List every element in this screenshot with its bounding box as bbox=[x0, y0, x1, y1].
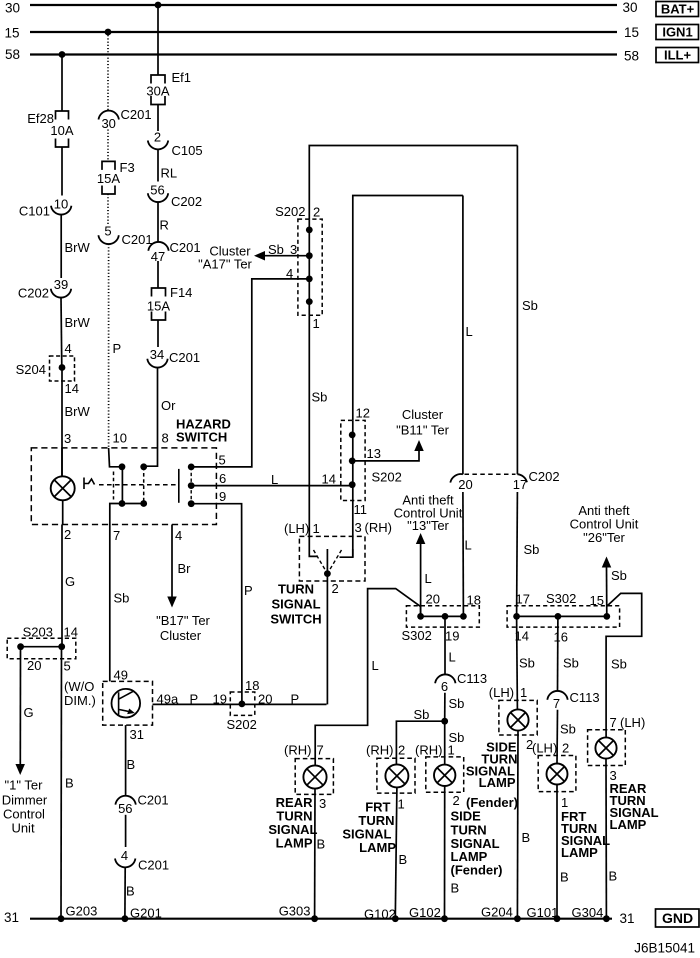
svg-text:G201: G201 bbox=[130, 906, 162, 921]
wire hazard pin4 to B17 cluster (Br) bbox=[171, 525, 173, 600]
svg-text:5: 5 bbox=[104, 224, 111, 239]
svg-text:10: 10 bbox=[113, 431, 127, 446]
ground G102 (FRT RH) bbox=[392, 915, 399, 922]
arrow S202-3 to Cluster A17 Ter (Sb) bbox=[264, 255, 310, 257]
svg-text:(RH): (RH) bbox=[365, 520, 392, 535]
svg-text:39: 39 bbox=[54, 277, 68, 292]
svg-text:2: 2 bbox=[154, 130, 161, 145]
svg-text:16: 16 bbox=[554, 630, 568, 645]
svg-text:L: L bbox=[449, 650, 456, 665]
wire bus30 to fuse Ef1 bbox=[157, 5, 159, 75]
svg-text:G303: G303 bbox=[279, 904, 311, 919]
wire hazard pin8 jog bbox=[144, 448, 158, 466]
connector C202 pins 20/17 bbox=[450, 474, 463, 483]
svg-text:30: 30 bbox=[5, 1, 20, 16]
svg-text:3: 3 bbox=[319, 796, 326, 811]
svg-text:58: 58 bbox=[5, 47, 20, 62]
arrow S202-13 to Cluster B11 Ter bbox=[352, 447, 419, 461]
svg-text:34: 34 bbox=[150, 347, 164, 362]
svg-text:15A: 15A bbox=[97, 171, 120, 186]
svg-text:GND: GND bbox=[662, 910, 693, 926]
svg-text:Ef1: Ef1 bbox=[172, 70, 192, 85]
svg-text:7: 7 bbox=[317, 743, 324, 758]
svg-text:Unit: Unit bbox=[11, 821, 35, 836]
svg-text:1: 1 bbox=[398, 797, 405, 812]
svg-text:4: 4 bbox=[175, 528, 182, 543]
svg-text:(LH): (LH) bbox=[284, 521, 309, 536]
svg-text:18: 18 bbox=[245, 678, 259, 693]
svg-text:C201: C201 bbox=[121, 107, 152, 122]
svg-text:31: 31 bbox=[130, 727, 144, 742]
wire S202-2 up and right to Sb column bbox=[309, 146, 517, 220]
svg-text:58: 58 bbox=[624, 49, 639, 64]
svg-text:"13"Ter: "13"Ter bbox=[407, 518, 449, 533]
svg-text:15: 15 bbox=[5, 26, 20, 41]
side RH wire to ground G102 (B) bbox=[444, 786, 446, 919]
ground G303 bbox=[311, 915, 318, 922]
junction bus15/P wire bbox=[105, 29, 112, 36]
svg-text:(RH): (RH) bbox=[366, 743, 393, 758]
svg-text:"1" Ter: "1" Ter bbox=[5, 778, 44, 793]
svg-text:30A: 30A bbox=[146, 84, 169, 99]
wire C201-5 to hazard switch pin 10 (P) bbox=[108, 244, 110, 448]
terminal box GND bbox=[656, 909, 700, 927]
wire hazard pin5 to S202 pin4 (Sb) bbox=[191, 279, 309, 467]
svg-text:L: L bbox=[271, 472, 278, 487]
svg-text:BrW: BrW bbox=[65, 404, 91, 419]
svg-text:17: 17 bbox=[513, 477, 527, 492]
hazard contact bottom-left bbox=[119, 500, 126, 507]
arrow S302-20 to anti theft 13 (L) bbox=[416, 533, 426, 544]
svg-text:30: 30 bbox=[101, 116, 115, 131]
svg-text:Cluster: Cluster bbox=[402, 407, 444, 422]
wire hazard pin7 to blink unit 49 (Sb) bbox=[109, 525, 111, 682]
svg-text:B: B bbox=[65, 776, 74, 791]
hazard switch box bbox=[31, 448, 216, 525]
svg-text:G101: G101 bbox=[527, 905, 559, 920]
svg-text:C202: C202 bbox=[529, 469, 560, 484]
blink unit symbol bbox=[112, 689, 141, 718]
svg-text:BrW: BrW bbox=[65, 315, 91, 330]
arrow S302-15 to anti theft 26 (Sb) bbox=[602, 557, 612, 568]
svg-text:(W/O: (W/O bbox=[64, 679, 94, 694]
fuse F3 15A bbox=[102, 161, 115, 194]
svg-text:20: 20 bbox=[258, 692, 272, 707]
wire hazard pin9 down (P) bbox=[191, 504, 242, 704]
svg-text:15A: 15A bbox=[147, 299, 170, 314]
hazard switch mechanical dashed link bbox=[99, 484, 178, 486]
connector C201 pin 56 (blink) bbox=[115, 796, 135, 805]
wire S302-19 to C113-6 (L) bbox=[444, 616, 446, 674]
svg-text:C202: C202 bbox=[18, 286, 49, 301]
svg-text:Sb: Sb bbox=[611, 657, 627, 672]
fuse F14 15A bbox=[152, 288, 166, 320]
hazard common contact pin5 bbox=[188, 464, 195, 471]
ground G102 (side RH) bbox=[441, 915, 448, 922]
svg-text:J6B15041: J6B15041 bbox=[634, 941, 695, 956]
svg-text:RL: RL bbox=[161, 166, 178, 181]
svg-text:8: 8 bbox=[162, 431, 169, 446]
svg-text:Cluster: Cluster bbox=[160, 628, 202, 643]
svg-text:2: 2 bbox=[398, 743, 405, 758]
wire Sb split to FRT RH lamp bbox=[396, 721, 444, 764]
wire Sb split down to side RH lamp bbox=[444, 721, 446, 765]
svg-text:LAMP: LAMP bbox=[561, 845, 598, 860]
svg-text:12: 12 bbox=[356, 406, 370, 421]
wire C201-47 to fuse F14 bbox=[157, 261, 159, 288]
svg-text:B: B bbox=[451, 881, 460, 896]
svg-text:R: R bbox=[160, 218, 169, 233]
wire C202-20 to S302 pin18 (L) bbox=[462, 492, 465, 616]
wire hazard pin7 from bottom-left contact bbox=[110, 504, 122, 525]
svg-text:BAT+: BAT+ bbox=[661, 2, 695, 17]
side LH wire to ground G204 (B) bbox=[516, 731, 519, 919]
svg-text:7: 7 bbox=[553, 696, 560, 711]
svg-text:1: 1 bbox=[313, 316, 320, 331]
svg-text:Sb: Sb bbox=[312, 390, 328, 405]
svg-text:17: 17 bbox=[516, 592, 530, 607]
wire C101 to C202, BrW bbox=[60, 215, 62, 279]
svg-text:5: 5 bbox=[219, 453, 226, 468]
svg-text:3: 3 bbox=[64, 431, 71, 446]
FRT RH wire to ground G102 (B) bbox=[395, 787, 397, 918]
wire C202-56 to C201-47, R bbox=[157, 202, 159, 242]
svg-text:S202: S202 bbox=[372, 470, 402, 485]
bus 31 (GND) bbox=[30, 918, 612, 920]
svg-text:LAMP: LAMP bbox=[276, 836, 313, 851]
wire hazard pin10 jog bbox=[109, 448, 122, 467]
svg-text:4: 4 bbox=[65, 341, 72, 356]
ground G201 bbox=[122, 915, 129, 922]
svg-text:(RH): (RH) bbox=[415, 743, 442, 758]
svg-text:S302: S302 bbox=[402, 628, 432, 643]
svg-text:Sb: Sb bbox=[519, 656, 535, 671]
svg-text:"A17" Ter: "A17" Ter bbox=[198, 257, 252, 272]
svg-text:31: 31 bbox=[4, 910, 19, 925]
svg-text:56: 56 bbox=[118, 801, 132, 816]
svg-text:3: 3 bbox=[355, 520, 362, 535]
svg-text:B: B bbox=[560, 870, 569, 885]
wire Ef1 to C105 bbox=[157, 105, 159, 132]
svg-text:Sb: Sb bbox=[114, 591, 130, 606]
svg-text:C113: C113 bbox=[457, 671, 487, 686]
wire S302-16 to C113-7 (Sb) bbox=[557, 616, 559, 691]
svg-text:2: 2 bbox=[313, 205, 320, 220]
svg-text:4: 4 bbox=[121, 848, 128, 863]
side turn signal lamp RH (fender) bbox=[426, 757, 464, 792]
turn signal switch pole bbox=[326, 549, 328, 581]
ground G101 bbox=[554, 915, 561, 922]
wire S202-11 to turn signal switch RH bbox=[352, 501, 354, 558]
hazard contact bridge open (right, dashed) bbox=[143, 467, 145, 504]
svg-text:F3: F3 bbox=[120, 160, 135, 175]
svg-text:S204: S204 bbox=[16, 362, 46, 377]
svg-text:Br: Br bbox=[178, 561, 192, 576]
svg-text:C201: C201 bbox=[138, 793, 169, 808]
svg-text:DIM.): DIM.) bbox=[64, 693, 96, 708]
svg-text:B: B bbox=[399, 852, 408, 867]
wire C201-56 to C201-4 bbox=[125, 815, 127, 847]
svg-text:Sb: Sb bbox=[563, 656, 579, 671]
wire Ef28 to C101 bbox=[61, 147, 63, 196]
svg-text:"B11" Ter: "B11" Ter bbox=[396, 423, 450, 438]
rear turn signal lamp LH bbox=[588, 730, 626, 766]
wire S202-12 up and right to L column bbox=[353, 196, 463, 421]
wire C201 to fuse F3 (P) bbox=[107, 130, 109, 162]
svg-text:BrW: BrW bbox=[65, 240, 91, 255]
svg-text:Sb: Sb bbox=[560, 722, 576, 737]
svg-text:(Fender): (Fender) bbox=[466, 795, 518, 810]
svg-text:L: L bbox=[372, 658, 379, 673]
hazard contact bridge closed (left) bbox=[121, 467, 123, 504]
bus 58 (ILL+) bbox=[30, 53, 617, 55]
wire bus58 to fuse Ef28 bbox=[61, 55, 63, 112]
svg-text:S202: S202 bbox=[275, 204, 305, 219]
svg-text:G: G bbox=[65, 574, 75, 589]
wire F14 to C201-34 bbox=[157, 320, 159, 347]
junction bus30/Ef1 wire bbox=[155, 2, 162, 9]
wire TSS pin2 down to P net bbox=[326, 581, 328, 704]
ground G203 bbox=[58, 915, 65, 922]
svg-text:14: 14 bbox=[515, 629, 529, 644]
wire bus15 to C201 (P) bbox=[107, 32, 109, 111]
svg-text:G203: G203 bbox=[66, 904, 98, 919]
svg-text:7: 7 bbox=[113, 528, 120, 543]
svg-text:G: G bbox=[24, 705, 34, 720]
blink unit box bbox=[103, 681, 153, 725]
svg-text:20: 20 bbox=[458, 477, 472, 492]
svg-text:Sb: Sb bbox=[449, 696, 465, 711]
terminal box ILL+ bbox=[656, 48, 699, 63]
wire C201-4 to ground G201 (B) bbox=[124, 867, 126, 918]
wire S302-15 detour to rear LH lamp (Sb) bbox=[606, 593, 642, 737]
svg-text:IGN1: IGN1 bbox=[662, 25, 692, 40]
blink unit output 49a wire (P) to S202 and TSS bbox=[153, 703, 327, 705]
svg-text:1: 1 bbox=[313, 521, 320, 536]
svg-text:Control: Control bbox=[3, 807, 45, 822]
hazard lamp actuator link symbol bbox=[84, 478, 95, 490]
wire S204 to hazard switch pin 3, BrW bbox=[61, 368, 63, 477]
svg-text:2: 2 bbox=[332, 581, 339, 596]
svg-text:15: 15 bbox=[624, 25, 639, 40]
svg-text:L: L bbox=[465, 538, 472, 553]
hazard mechanical dashed vertical bbox=[113, 472, 115, 500]
svg-text:G102: G102 bbox=[364, 907, 396, 922]
svg-text:1: 1 bbox=[448, 743, 455, 758]
svg-text:Or: Or bbox=[161, 398, 176, 413]
svg-text:Sb: Sb bbox=[522, 298, 538, 313]
svg-text:L: L bbox=[425, 571, 432, 586]
rear turn signal lamp RH bbox=[295, 759, 333, 795]
side turn signal lamp LH (fender) bbox=[499, 700, 537, 735]
hazard contact top-left bbox=[119, 463, 126, 470]
svg-text:2: 2 bbox=[64, 527, 71, 542]
hazard common contact pin9 bbox=[188, 500, 195, 507]
arrow to B17 Ter Cluster bbox=[167, 597, 177, 608]
svg-text:TURN: TURN bbox=[278, 582, 314, 597]
svg-text:C113: C113 bbox=[570, 690, 600, 705]
svg-text:13: 13 bbox=[367, 446, 381, 461]
svg-text:(LH): (LH) bbox=[489, 685, 514, 700]
svg-text:6: 6 bbox=[441, 679, 448, 694]
wire F3 to C201 (P) bbox=[107, 194, 109, 226]
bus 15 (IGN1) bbox=[30, 31, 617, 33]
hazard common contact pin6 bbox=[188, 482, 195, 489]
svg-text:49a: 49a bbox=[157, 692, 179, 707]
svg-text:1: 1 bbox=[520, 685, 527, 700]
svg-text:3: 3 bbox=[290, 242, 297, 257]
wire C202-17 to S302 pin17 (Sb) bbox=[516, 492, 519, 616]
svg-text:S203: S203 bbox=[23, 625, 53, 640]
svg-text:19: 19 bbox=[213, 692, 227, 707]
hazard actuator bar bbox=[178, 469, 180, 503]
svg-text:(LH): (LH) bbox=[620, 715, 645, 730]
svg-text:P: P bbox=[190, 692, 199, 707]
svg-text:LAMP: LAMP bbox=[479, 775, 516, 790]
connector C201 pin 30 bbox=[99, 111, 119, 120]
svg-text:(RH): (RH) bbox=[284, 743, 311, 758]
svg-text:P: P bbox=[291, 692, 300, 707]
wire C202-39 to S204, BrW bbox=[60, 298, 63, 368]
svg-text:14: 14 bbox=[322, 472, 336, 487]
wire C105 to C202, RL bbox=[157, 149, 159, 181]
splice S204 bbox=[50, 356, 75, 381]
wire S302-14 to side LH lamp (Sb) bbox=[516, 616, 519, 710]
turn signal switch LH contact bbox=[309, 549, 317, 556]
wire L drop to C202-20 bbox=[462, 196, 464, 475]
svg-text:(Fender): (Fender) bbox=[451, 863, 503, 878]
ground G304 bbox=[603, 915, 610, 922]
svg-text:Sb: Sb bbox=[611, 568, 627, 583]
svg-text:C202: C202 bbox=[171, 194, 202, 209]
svg-text:7: 7 bbox=[610, 715, 617, 730]
turn signal switch RH contact bbox=[340, 549, 353, 557]
svg-text:S302: S302 bbox=[546, 591, 576, 606]
svg-text:C101: C101 bbox=[19, 204, 50, 219]
svg-text:P: P bbox=[113, 341, 122, 356]
hazard contact bottom bridge bbox=[122, 503, 144, 505]
svg-text:"26"Ter: "26"Ter bbox=[583, 530, 625, 545]
svg-text:C201: C201 bbox=[138, 858, 169, 873]
svg-text:ILL+: ILL+ bbox=[664, 48, 691, 63]
FRT turn signal lamp RH bbox=[377, 758, 415, 793]
svg-text:SWITCH: SWITCH bbox=[270, 612, 321, 627]
svg-text:6: 6 bbox=[219, 471, 226, 486]
svg-text:31: 31 bbox=[620, 911, 635, 926]
svg-text:4: 4 bbox=[286, 266, 293, 281]
svg-text:G102: G102 bbox=[409, 905, 441, 920]
svg-text:20: 20 bbox=[27, 658, 41, 673]
svg-text:2: 2 bbox=[453, 793, 460, 808]
svg-text:C201: C201 bbox=[170, 240, 201, 255]
connector C201 pin 47 bbox=[148, 242, 168, 251]
svg-text:B: B bbox=[317, 837, 326, 852]
wire S203-5 to ground G203 (B) bbox=[60, 647, 63, 919]
svg-text:1: 1 bbox=[561, 795, 568, 810]
FRT LH wire to ground G101 (B) bbox=[556, 785, 558, 919]
wire C201-34 to hazard switch pin 8, Or bbox=[157, 368, 159, 449]
ground G204 bbox=[514, 915, 521, 922]
svg-text:SIDE: SIDE bbox=[451, 809, 482, 824]
svg-text:20: 20 bbox=[426, 592, 440, 607]
connector C113 pin 6 bbox=[435, 674, 455, 683]
bus 30 (BAT+) bbox=[30, 4, 617, 6]
svg-text:49: 49 bbox=[114, 668, 128, 683]
arrow to 1 Ter Dimmer Control Unit bbox=[15, 764, 25, 775]
svg-text:S202: S202 bbox=[227, 717, 257, 732]
rear LH wire to ground G304 (B) bbox=[605, 759, 607, 919]
junction bus58/Ef28 wire bbox=[59, 51, 66, 58]
svg-text:"B17" Ter: "B17" Ter bbox=[156, 613, 210, 628]
terminal box BAT+ bbox=[656, 2, 699, 17]
svg-text:B: B bbox=[609, 869, 618, 884]
FRT turn signal lamp LH bbox=[538, 756, 576, 792]
svg-text:5: 5 bbox=[64, 659, 71, 674]
wire C113-6 down to Sb split (Sb) bbox=[444, 693, 446, 722]
svg-text:P: P bbox=[244, 583, 253, 598]
svg-text:11: 11 bbox=[354, 502, 368, 517]
svg-text:LAMP: LAMP bbox=[359, 840, 396, 855]
svg-text:Sb: Sb bbox=[414, 707, 430, 722]
svg-text:B: B bbox=[127, 757, 136, 772]
svg-text:C105: C105 bbox=[172, 143, 203, 158]
wire Sb drop to C202-17 bbox=[516, 146, 518, 475]
svg-text:14: 14 bbox=[64, 625, 78, 640]
svg-text:Dimmer: Dimmer bbox=[2, 793, 48, 808]
svg-text:10: 10 bbox=[54, 197, 68, 212]
svg-text:G304: G304 bbox=[572, 905, 604, 920]
wire C113-7 to FRT LH lamp (Sb) bbox=[556, 710, 559, 764]
fuse Ef28 10A bbox=[56, 111, 69, 147]
wire hazard pin2 to S203 (G) bbox=[61, 525, 63, 647]
fuse Ef1 30A bbox=[151, 75, 165, 105]
svg-text:C201: C201 bbox=[169, 350, 200, 365]
svg-text:Sb: Sb bbox=[524, 542, 540, 557]
wire hazard pin6 to S202 pin14 (L) bbox=[191, 485, 352, 487]
svg-text:B: B bbox=[126, 884, 135, 899]
wire S203-20 to dimmer control unit (G) bbox=[19, 647, 21, 764]
hazard switch indicator lamp bbox=[61, 448, 63, 476]
hazard contact top-right bbox=[140, 463, 147, 470]
terminal box IGN1 bbox=[656, 25, 699, 40]
svg-text:2: 2 bbox=[562, 741, 569, 756]
svg-text:9: 9 bbox=[219, 489, 226, 504]
svg-text:14: 14 bbox=[65, 381, 79, 396]
svg-text:F14: F14 bbox=[170, 285, 192, 300]
svg-text:56: 56 bbox=[150, 183, 164, 198]
hazard common contacts dashed link bbox=[190, 467, 192, 504]
wire S202-1 to turn signal switch LH (Sb) bbox=[308, 315, 310, 549]
connector C113 pin 7 bbox=[547, 691, 567, 700]
svg-text:B: B bbox=[522, 830, 531, 845]
svg-text:LAMP: LAMP bbox=[610, 817, 647, 832]
hazard contact bottom-right bbox=[140, 500, 147, 507]
svg-text:Sb: Sb bbox=[268, 242, 284, 257]
svg-text:19: 19 bbox=[445, 629, 459, 644]
svg-text:C201: C201 bbox=[122, 232, 153, 247]
svg-text:30: 30 bbox=[623, 0, 638, 15]
turn signal switch box bbox=[299, 536, 365, 581]
svg-text:G204: G204 bbox=[481, 905, 513, 920]
svg-text:Ef28: Ef28 bbox=[27, 111, 54, 126]
svg-text:(LH): (LH) bbox=[532, 741, 557, 756]
svg-text:SWITCH: SWITCH bbox=[176, 430, 227, 445]
svg-text:SIGNAL: SIGNAL bbox=[271, 597, 320, 612]
wire S302-20 diagonal to L corner bbox=[315, 589, 420, 766]
svg-text:L: L bbox=[466, 324, 473, 339]
